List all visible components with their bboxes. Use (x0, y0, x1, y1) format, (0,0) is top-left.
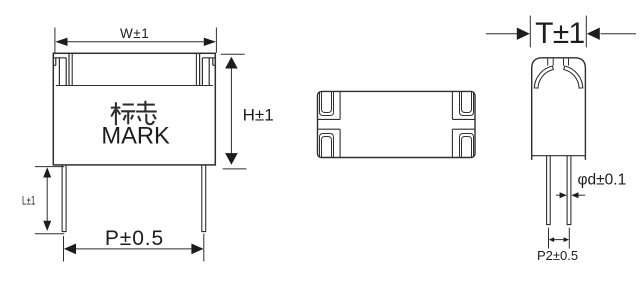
top view left divider lines (318, 91, 341, 157)
right lead side view (567, 156, 571, 225)
capacitor body front view (53, 53, 215, 165)
top view corner U mark bottom-left (320, 134, 334, 158)
top view corner U mark bottom-right (460, 134, 474, 158)
side view left shoulder arc (534, 66, 553, 88)
dimension L±1 (35, 167, 64, 234)
side view right shoulder arc (564, 66, 583, 88)
right lead front view (202, 165, 206, 232)
dimension W±1 (55, 28, 217, 53)
left corner tab detail (53, 53, 69, 85)
svg-text:W±1: W±1 (120, 26, 149, 41)
dimension P2±0.5 (549, 228, 570, 249)
dimension P±0.5 (64, 234, 204, 262)
capacitor body side view (532, 58, 586, 160)
标志 chinese label (drawn strokes) (111, 101, 157, 126)
svg-text:MARK: MARK (101, 124, 170, 150)
svg-text:φd±0.1: φd±0.1 (578, 171, 627, 188)
svg-text:H±1: H±1 (243, 105, 274, 124)
left lead front view (62, 165, 66, 232)
svg-text:L±1: L±1 (22, 194, 35, 208)
dimension H±1 (221, 54, 247, 169)
svg-text:P2±0.5: P2±0.5 (537, 248, 578, 263)
svg-text:P±0.5: P±0.5 (105, 227, 164, 250)
top view corner U mark top-left (320, 92, 334, 116)
side view top slot lines (548, 58, 569, 66)
left lead side view (547, 156, 551, 225)
top view corner U mark top-right (460, 92, 474, 116)
svg-text:T±1: T±1 (535, 17, 584, 50)
right corner tab detail (200, 53, 216, 85)
epoxy recess top area (56, 53, 213, 85)
top view right divider lines (452, 91, 475, 157)
dimension T±1 (486, 16, 636, 48)
capacitor body top view (318, 91, 476, 157)
